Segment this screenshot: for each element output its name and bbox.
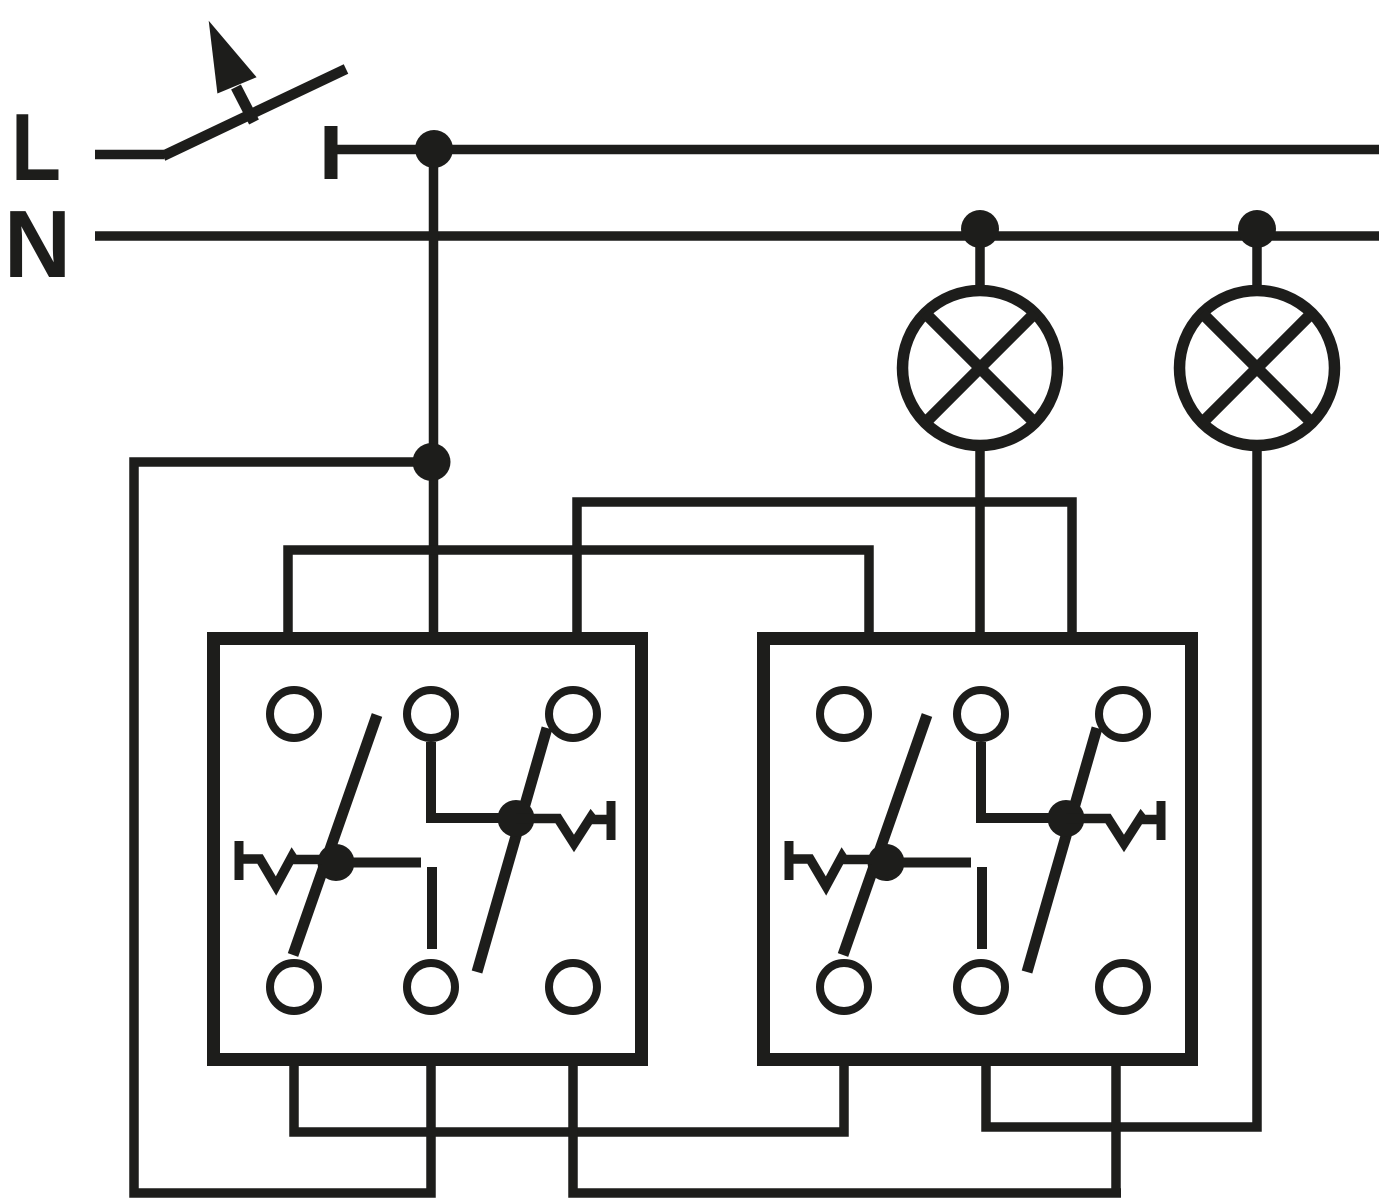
- svg-text:N: N: [4, 191, 71, 298]
- svg-text:L: L: [11, 94, 61, 201]
